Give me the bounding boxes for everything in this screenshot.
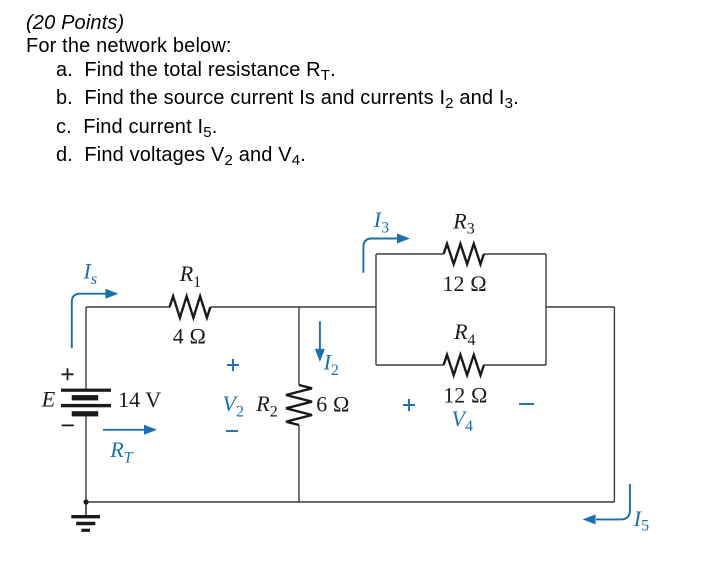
svg-text:I3: I3	[373, 207, 389, 237]
svg-text:14 V: 14 V	[118, 387, 161, 412]
svg-text:12 Ω: 12 Ω	[443, 271, 487, 296]
svg-text:12 Ω: 12 Ω	[443, 383, 487, 408]
svg-text:R1: R1	[179, 261, 201, 291]
svg-text:I5: I5	[633, 506, 649, 535]
svg-text:6 Ω: 6 Ω	[316, 391, 349, 416]
svg-text:4 Ω: 4 Ω	[173, 324, 206, 349]
svg-text:V4: V4	[452, 406, 473, 435]
svg-text:R4: R4	[453, 319, 475, 349]
svg-text:V2: V2	[223, 391, 244, 420]
svg-text:RT: RT	[109, 437, 133, 467]
svg-text:Is: Is	[83, 258, 98, 288]
svg-text:I2: I2	[323, 350, 339, 380]
svg-text:R2: R2	[255, 391, 277, 420]
svg-text:R3: R3	[452, 208, 474, 237]
svg-text:E: E	[41, 387, 56, 412]
